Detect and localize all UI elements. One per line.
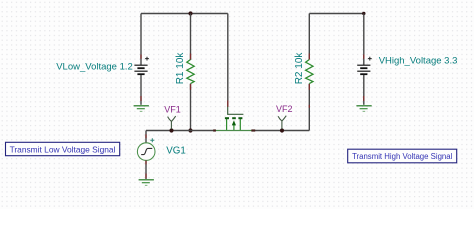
wire: VHigh battery bottom lead xyxy=(363,75,365,105)
label VLow_Voltage 1.2 xyxy=(56,61,133,72)
wire: high-side node line xyxy=(251,130,309,132)
wire: VLow battery top lead xyxy=(140,14,142,66)
wire: VG1 bottom lead xyxy=(145,160,147,179)
svg-text:VLow_Voltage 1.2: VLow_Voltage 1.2 xyxy=(56,61,133,72)
wire: R1 bottom lead xyxy=(190,84,192,131)
label VG1 xyxy=(166,145,186,156)
ground below VHigh battery xyxy=(356,106,371,112)
wire: right top rail xyxy=(309,13,364,15)
annotation box: Transmit Low Voltage Signal xyxy=(6,142,120,155)
wire: R1 top lead xyxy=(190,14,192,61)
wire: low-side node line xyxy=(146,130,216,132)
label VHigh_Voltage 3.3 xyxy=(379,56,458,67)
wire: VLow battery bottom lead xyxy=(140,75,142,105)
ground below VLow battery xyxy=(134,106,149,112)
generator VG1 xyxy=(137,138,155,160)
svg-text:VG1: VG1 xyxy=(166,145,186,156)
wire: R2 bottom lead (riser) xyxy=(308,84,310,131)
svg-text:Transmit Low Voltage Signal: Transmit Low Voltage Signal xyxy=(10,144,116,154)
svg-text:R2 10k: R2 10k xyxy=(294,52,305,85)
node junction dot at R1 top xyxy=(188,11,192,15)
wire: gate riser from left rail xyxy=(227,14,229,108)
battery V1 VLow_Voltage xyxy=(134,57,149,74)
junction dot VF1 xyxy=(169,128,173,132)
wire: R2 top lead xyxy=(308,14,310,60)
svg-text:VF2: VF2 xyxy=(276,104,293,114)
transistor T1 NMOS xyxy=(216,107,252,131)
label R2 10k xyxy=(294,52,305,85)
svg-text:VHigh_Voltage 3.3: VHigh_Voltage 3.3 xyxy=(379,56,458,67)
wire: VG1 top lead xyxy=(145,131,147,144)
annotation box: Transmit High Voltage Signal xyxy=(348,149,457,163)
label VF2 xyxy=(276,104,293,114)
svg-text:R1 10k: R1 10k xyxy=(175,52,186,85)
wire: VHigh battery top lead xyxy=(363,14,365,66)
junction dot VF2 xyxy=(280,128,284,132)
label R1 10k xyxy=(175,52,186,85)
corner dot at right rail end xyxy=(362,12,365,15)
battery V2 VHigh_Voltage xyxy=(357,57,372,74)
voltage pin flag VF1 xyxy=(168,116,176,129)
label VF1 xyxy=(164,104,181,114)
svg-text:VF1: VF1 xyxy=(164,104,181,114)
junction dot at R1 bottom xyxy=(188,128,192,132)
wire: left top rail xyxy=(141,13,228,15)
resistor R2 xyxy=(306,60,313,84)
voltage pin flag VF2 xyxy=(278,116,286,129)
resistor R1 xyxy=(187,60,194,84)
ground below VG1 xyxy=(139,180,154,186)
svg-text:Transmit High Voltage Signal: Transmit High Voltage Signal xyxy=(352,152,453,161)
